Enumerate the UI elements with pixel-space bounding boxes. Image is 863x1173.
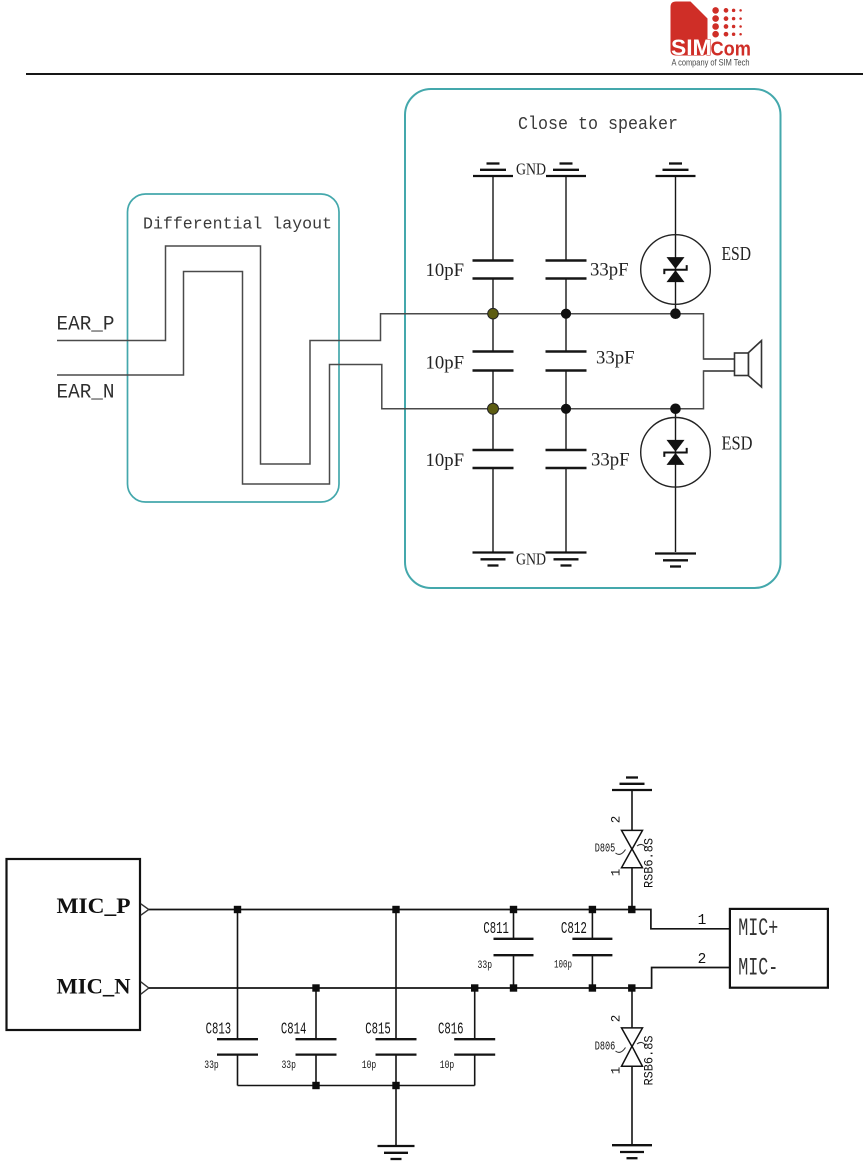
svg-text:33p: 33p xyxy=(204,1060,219,1072)
svg-text:10pF: 10pF xyxy=(426,450,465,471)
svg-text:1: 1 xyxy=(698,913,707,929)
svg-text:RSB6.8S: RSB6.8S xyxy=(642,1035,657,1085)
svg-text:EAR_N: EAR_N xyxy=(57,382,115,405)
svg-text:MIC-: MIC- xyxy=(738,954,778,983)
svg-text:Close to speaker: Close to speaker xyxy=(518,115,678,135)
svg-text:SIM: SIM xyxy=(671,35,712,60)
svg-text:A company of SIM Tech: A company of SIM Tech xyxy=(672,58,750,68)
svg-text:10pF: 10pF xyxy=(426,353,465,374)
svg-text:MIC_P: MIC_P xyxy=(57,893,131,918)
svg-text:EAR_P: EAR_P xyxy=(57,314,115,337)
svg-text:C816: C816 xyxy=(438,1020,464,1039)
svg-text:C811: C811 xyxy=(483,919,509,938)
svg-text:MIC_N: MIC_N xyxy=(57,974,131,999)
svg-text:10p: 10p xyxy=(440,1060,455,1072)
svg-text:D805: D805 xyxy=(595,841,616,855)
svg-text:C813: C813 xyxy=(206,1020,232,1039)
svg-text:10p: 10p xyxy=(362,1060,377,1072)
svg-text:33p: 33p xyxy=(281,1060,296,1072)
svg-text:ESD: ESD xyxy=(722,243,752,265)
svg-text:33pF: 33pF xyxy=(591,450,630,471)
svg-text:ESD: ESD xyxy=(722,433,753,455)
svg-text:C812: C812 xyxy=(561,919,587,938)
svg-text:10pF: 10pF xyxy=(426,260,465,281)
svg-text:2: 2 xyxy=(610,816,624,824)
svg-text:33pF: 33pF xyxy=(590,260,629,281)
svg-text:33p: 33p xyxy=(478,960,493,972)
svg-text:Differential layout: Differential layout xyxy=(143,215,332,234)
svg-text:2: 2 xyxy=(698,952,707,968)
svg-text:GND: GND xyxy=(516,550,546,569)
svg-text:C814: C814 xyxy=(281,1020,307,1039)
svg-text:33pF: 33pF xyxy=(596,348,635,369)
svg-text:1: 1 xyxy=(610,869,624,877)
svg-text:RSB6.8S: RSB6.8S xyxy=(642,838,657,888)
svg-text:1: 1 xyxy=(610,1067,624,1075)
svg-text:GND: GND xyxy=(516,160,546,179)
svg-text:MIC+: MIC+ xyxy=(738,914,778,943)
svg-text:2: 2 xyxy=(610,1015,624,1023)
svg-text:100p: 100p xyxy=(554,960,572,972)
svg-text:D806: D806 xyxy=(595,1040,616,1054)
svg-text:C815: C815 xyxy=(365,1020,391,1039)
